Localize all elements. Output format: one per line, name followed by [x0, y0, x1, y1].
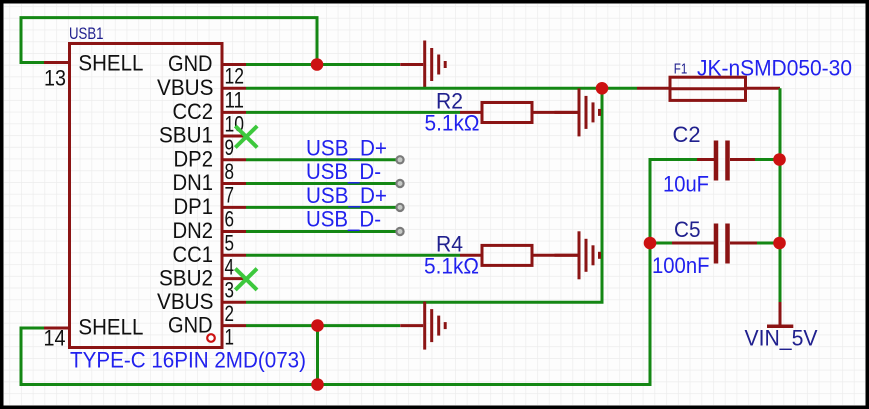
- svg-text:9: 9: [225, 135, 235, 160]
- wire pin4 CC1 to R4: [246, 254, 460, 257]
- svg-text:USB1: USB1: [69, 25, 104, 43]
- pin 7 DN1: [173, 170, 247, 207]
- svg-text:SBU2: SBU2: [159, 265, 213, 290]
- pin 10 CC2: [173, 99, 247, 136]
- svg-text:DN2: DN2: [173, 218, 214, 243]
- svg-text:VBUS: VBUS: [157, 289, 214, 314]
- junction C5 left: [644, 237, 657, 250]
- svg-text:7: 7: [225, 183, 235, 208]
- svg-text:GND: GND: [168, 312, 213, 337]
- wire C2 right to 5V rail: [755, 158, 780, 161]
- svg-text:11: 11: [225, 87, 245, 112]
- junction VBUS: [596, 82, 609, 95]
- svg-text:C2: C2: [673, 122, 701, 147]
- svg-text:3: 3: [225, 278, 235, 303]
- dangling end pin5: [396, 228, 403, 235]
- wire pin8 DP2: [246, 158, 396, 161]
- pin 6 DP1: [174, 194, 247, 231]
- fuse F1: [637, 77, 780, 100]
- no-connect X pin 3: [235, 269, 257, 290]
- capacitor C5: [656, 224, 757, 264]
- svg-text:F1: F1: [674, 62, 688, 78]
- wire 5V rail vertical: [779, 88, 782, 302]
- svg-text:C5: C5: [674, 217, 701, 242]
- pin 9 SBU1: [159, 123, 246, 160]
- pin 14 SHELL: [44, 315, 144, 351]
- wire pin7 DN1: [246, 182, 396, 185]
- wire pin6 DP1: [246, 206, 396, 209]
- connector USB1 body: [70, 44, 223, 348]
- wire VBUS down to pin2: [246, 88, 602, 302]
- pin 1 marker circle: [207, 334, 215, 342]
- svg-text:USB_D+: USB_D+: [306, 135, 387, 160]
- resistor R2: [460, 103, 578, 123]
- pin 13 SHELL: [44, 51, 143, 91]
- svg-text:CC2: CC2: [173, 99, 214, 124]
- junction C5/5V: [773, 237, 786, 250]
- svg-text:1: 1: [225, 325, 235, 350]
- wire pin1 down to bottom rail: [316, 326, 319, 385]
- junction C2/5V: [773, 153, 786, 166]
- svg-text:DP1: DP1: [174, 194, 214, 219]
- wire SHELL14 loop to bottom rail: [21, 160, 697, 385]
- wire pin12 GND to ground: [246, 63, 400, 66]
- svg-text:5.1kΩ: 5.1kΩ: [425, 111, 480, 136]
- pin 5 DN2: [173, 218, 247, 255]
- svg-text:SHELL: SHELL: [78, 315, 143, 340]
- no-connect X pin 9: [235, 126, 257, 148]
- svg-text:4: 4: [225, 254, 235, 279]
- svg-text:TYPE-C 16PIN 2MD(073): TYPE-C 16PIN 2MD(073): [70, 348, 306, 373]
- dangling end pin6: [396, 204, 403, 211]
- pin 4 CC1: [173, 242, 247, 279]
- wire SHELL13 to top GND loop: [21, 18, 317, 65]
- svg-text:14: 14: [44, 326, 66, 351]
- wire pin5 DN2: [246, 230, 396, 233]
- ground symbol R2: [555, 88, 600, 136]
- svg-text:SBU1: SBU1: [159, 123, 213, 148]
- wire pin1 GND to ground: [246, 324, 400, 327]
- svg-text:DP2: DP2: [174, 147, 214, 172]
- capacitor C2: [697, 141, 755, 181]
- svg-text:VIN_5V: VIN_5V: [745, 326, 818, 351]
- svg-text:10uF: 10uF: [663, 172, 709, 197]
- ground symbol top: [400, 41, 445, 89]
- wire pin11 VBUS to fuse: [246, 87, 637, 90]
- wire pin10 CC2 to R2: [246, 111, 460, 114]
- pin 12 GND: [168, 51, 246, 89]
- svg-text:5: 5: [225, 231, 235, 256]
- pin 1 GND: [168, 312, 246, 349]
- dangling end pin7: [396, 180, 403, 187]
- wire C5 right to 5V rail: [757, 242, 780, 245]
- ground symbol bottom: [400, 302, 445, 350]
- svg-text:6: 6: [225, 206, 235, 231]
- svg-text:100nF: 100nF: [652, 253, 710, 278]
- svg-text:8: 8: [225, 159, 235, 184]
- resistor R4: [460, 245, 578, 265]
- junction pin1: [311, 319, 324, 332]
- svg-text:2: 2: [225, 301, 235, 326]
- svg-text:USB_D+: USB_D+: [306, 183, 387, 208]
- svg-text:5.1kΩ: 5.1kΩ: [424, 254, 479, 279]
- pin 2 VBUS: [157, 289, 246, 326]
- pin 8 DP2: [174, 147, 247, 184]
- svg-text:GND: GND: [168, 51, 213, 76]
- junction pin12/top loop: [311, 58, 324, 71]
- power flag VIN_5V: [767, 302, 793, 326]
- svg-text:USB_D-: USB_D-: [306, 159, 381, 184]
- dangling end pin8: [396, 156, 403, 163]
- pin 3 SBU2: [159, 265, 246, 302]
- svg-text:13: 13: [44, 66, 66, 91]
- ground symbol R4: [555, 231, 600, 279]
- svg-text:12: 12: [225, 64, 245, 89]
- svg-text:CC1: CC1: [173, 242, 214, 267]
- svg-text:DN1: DN1: [173, 170, 214, 195]
- svg-text:VBUS: VBUS: [157, 75, 214, 100]
- svg-text:SHELL: SHELL: [78, 51, 143, 76]
- junction bottom rail: [311, 378, 324, 391]
- svg-text:JK-nSMD050-30: JK-nSMD050-30: [697, 56, 852, 81]
- pin 11 VBUS: [157, 75, 246, 112]
- svg-text:USB_D-: USB_D-: [306, 207, 381, 232]
